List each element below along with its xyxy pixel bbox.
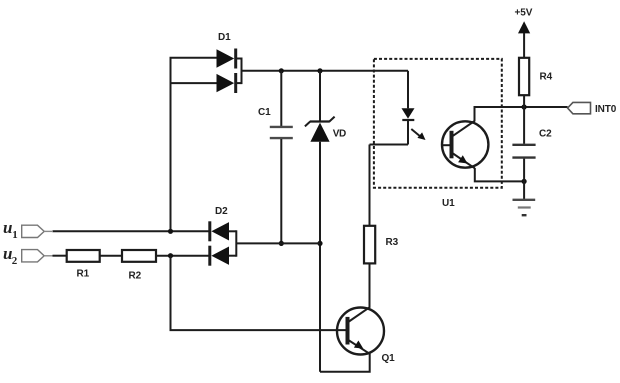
svg-text:Q1: Q1 [382, 353, 396, 364]
wire R3 top up to LED cathode line [369, 145, 371, 226]
transistor Q1 [337, 307, 384, 354]
svg-text:R4: R4 [540, 72, 553, 83]
capacitor C1 [270, 71, 293, 244]
diode D2 bottom half [210, 246, 237, 266]
resistor R1 [67, 250, 100, 262]
wire u2 to R1 [53, 255, 67, 257]
wire D1 top anode branch [170, 57, 218, 59]
node junction common node left [279, 241, 284, 246]
wire VD anode down emitter return [319, 142, 321, 372]
diode D1 top half [217, 49, 242, 69]
wire R4 bottom to node [523, 95, 525, 107]
ground [513, 200, 536, 215]
resistor R4 [519, 58, 529, 95]
wire R1 to R2 [100, 255, 122, 257]
node junction VD top [317, 68, 322, 73]
svg-text:R2: R2 [129, 271, 142, 282]
svg-text:1: 1 [12, 229, 17, 241]
svg-text:D1: D1 [218, 32, 231, 43]
svg-text:2: 2 [12, 255, 18, 267]
svg-text:R3: R3 [386, 237, 399, 248]
LED diode in optocoupler [402, 108, 415, 144]
input tag u1 [22, 225, 45, 237]
wire D1 cathode bracket [241, 58, 243, 85]
resistor R2 [122, 250, 156, 262]
wire LED cathode left to R3 [370, 144, 409, 146]
svg-text:C2: C2 [539, 129, 552, 140]
resistor R3 [364, 226, 375, 264]
wire D2 anode bracket [235, 230, 237, 256]
node junction u1 to left bus [168, 229, 173, 234]
wire phototransistor collector to INT0 line [475, 107, 568, 122]
svg-text:D2: D2 [215, 206, 228, 217]
node junction u2 to base bus [168, 253, 173, 258]
zener diode VD [305, 71, 335, 142]
svg-text:+5V: +5V [515, 8, 533, 19]
LED emission arrow [411, 129, 425, 140]
svg-text:VD: VD [333, 129, 346, 140]
svg-text:U1: U1 [442, 198, 455, 209]
capacitor C2 [512, 107, 535, 200]
node junction common node at VD line [317, 241, 322, 246]
wire u1 line [53, 230, 210, 232]
wire D1 bottom anode branch [171, 82, 218, 84]
wire Q1 emitter down and left to emitter return [320, 354, 370, 372]
svg-text:R1: R1 [77, 269, 90, 280]
wire top node from D1 to optocoupler LED [241, 70, 409, 72]
wire Q1 collector up to R3 [369, 263, 371, 308]
wire base bus down and to Q1 base [171, 256, 348, 330]
diode D2 top half [210, 221, 237, 241]
wire common node horizontal D2 anodes to VD line [236, 242, 320, 244]
svg-text:INT0: INT0 [595, 104, 617, 115]
node junction R4 C2 INT0 [522, 104, 527, 109]
power +5V arrow [518, 21, 530, 58]
diode D1 bottom half [217, 73, 242, 93]
node junction C1 top [279, 68, 284, 73]
input tag u2 [22, 250, 45, 262]
svg-text:u: u [3, 218, 12, 237]
wire vertical left bus from D1 anodes down to u1 line [170, 58, 172, 232]
node junction emitter C2 ground [522, 179, 527, 184]
wire LED anode drop [407, 71, 409, 109]
svg-text:C1: C1 [258, 107, 271, 118]
wire phototransistor emitter to ground rail [475, 168, 524, 181]
optocoupler dashed box U1 [374, 59, 502, 188]
phototransistor U1 [441, 121, 488, 168]
wire R2 to D2 [156, 255, 210, 257]
output tag INT0 [568, 102, 591, 113]
